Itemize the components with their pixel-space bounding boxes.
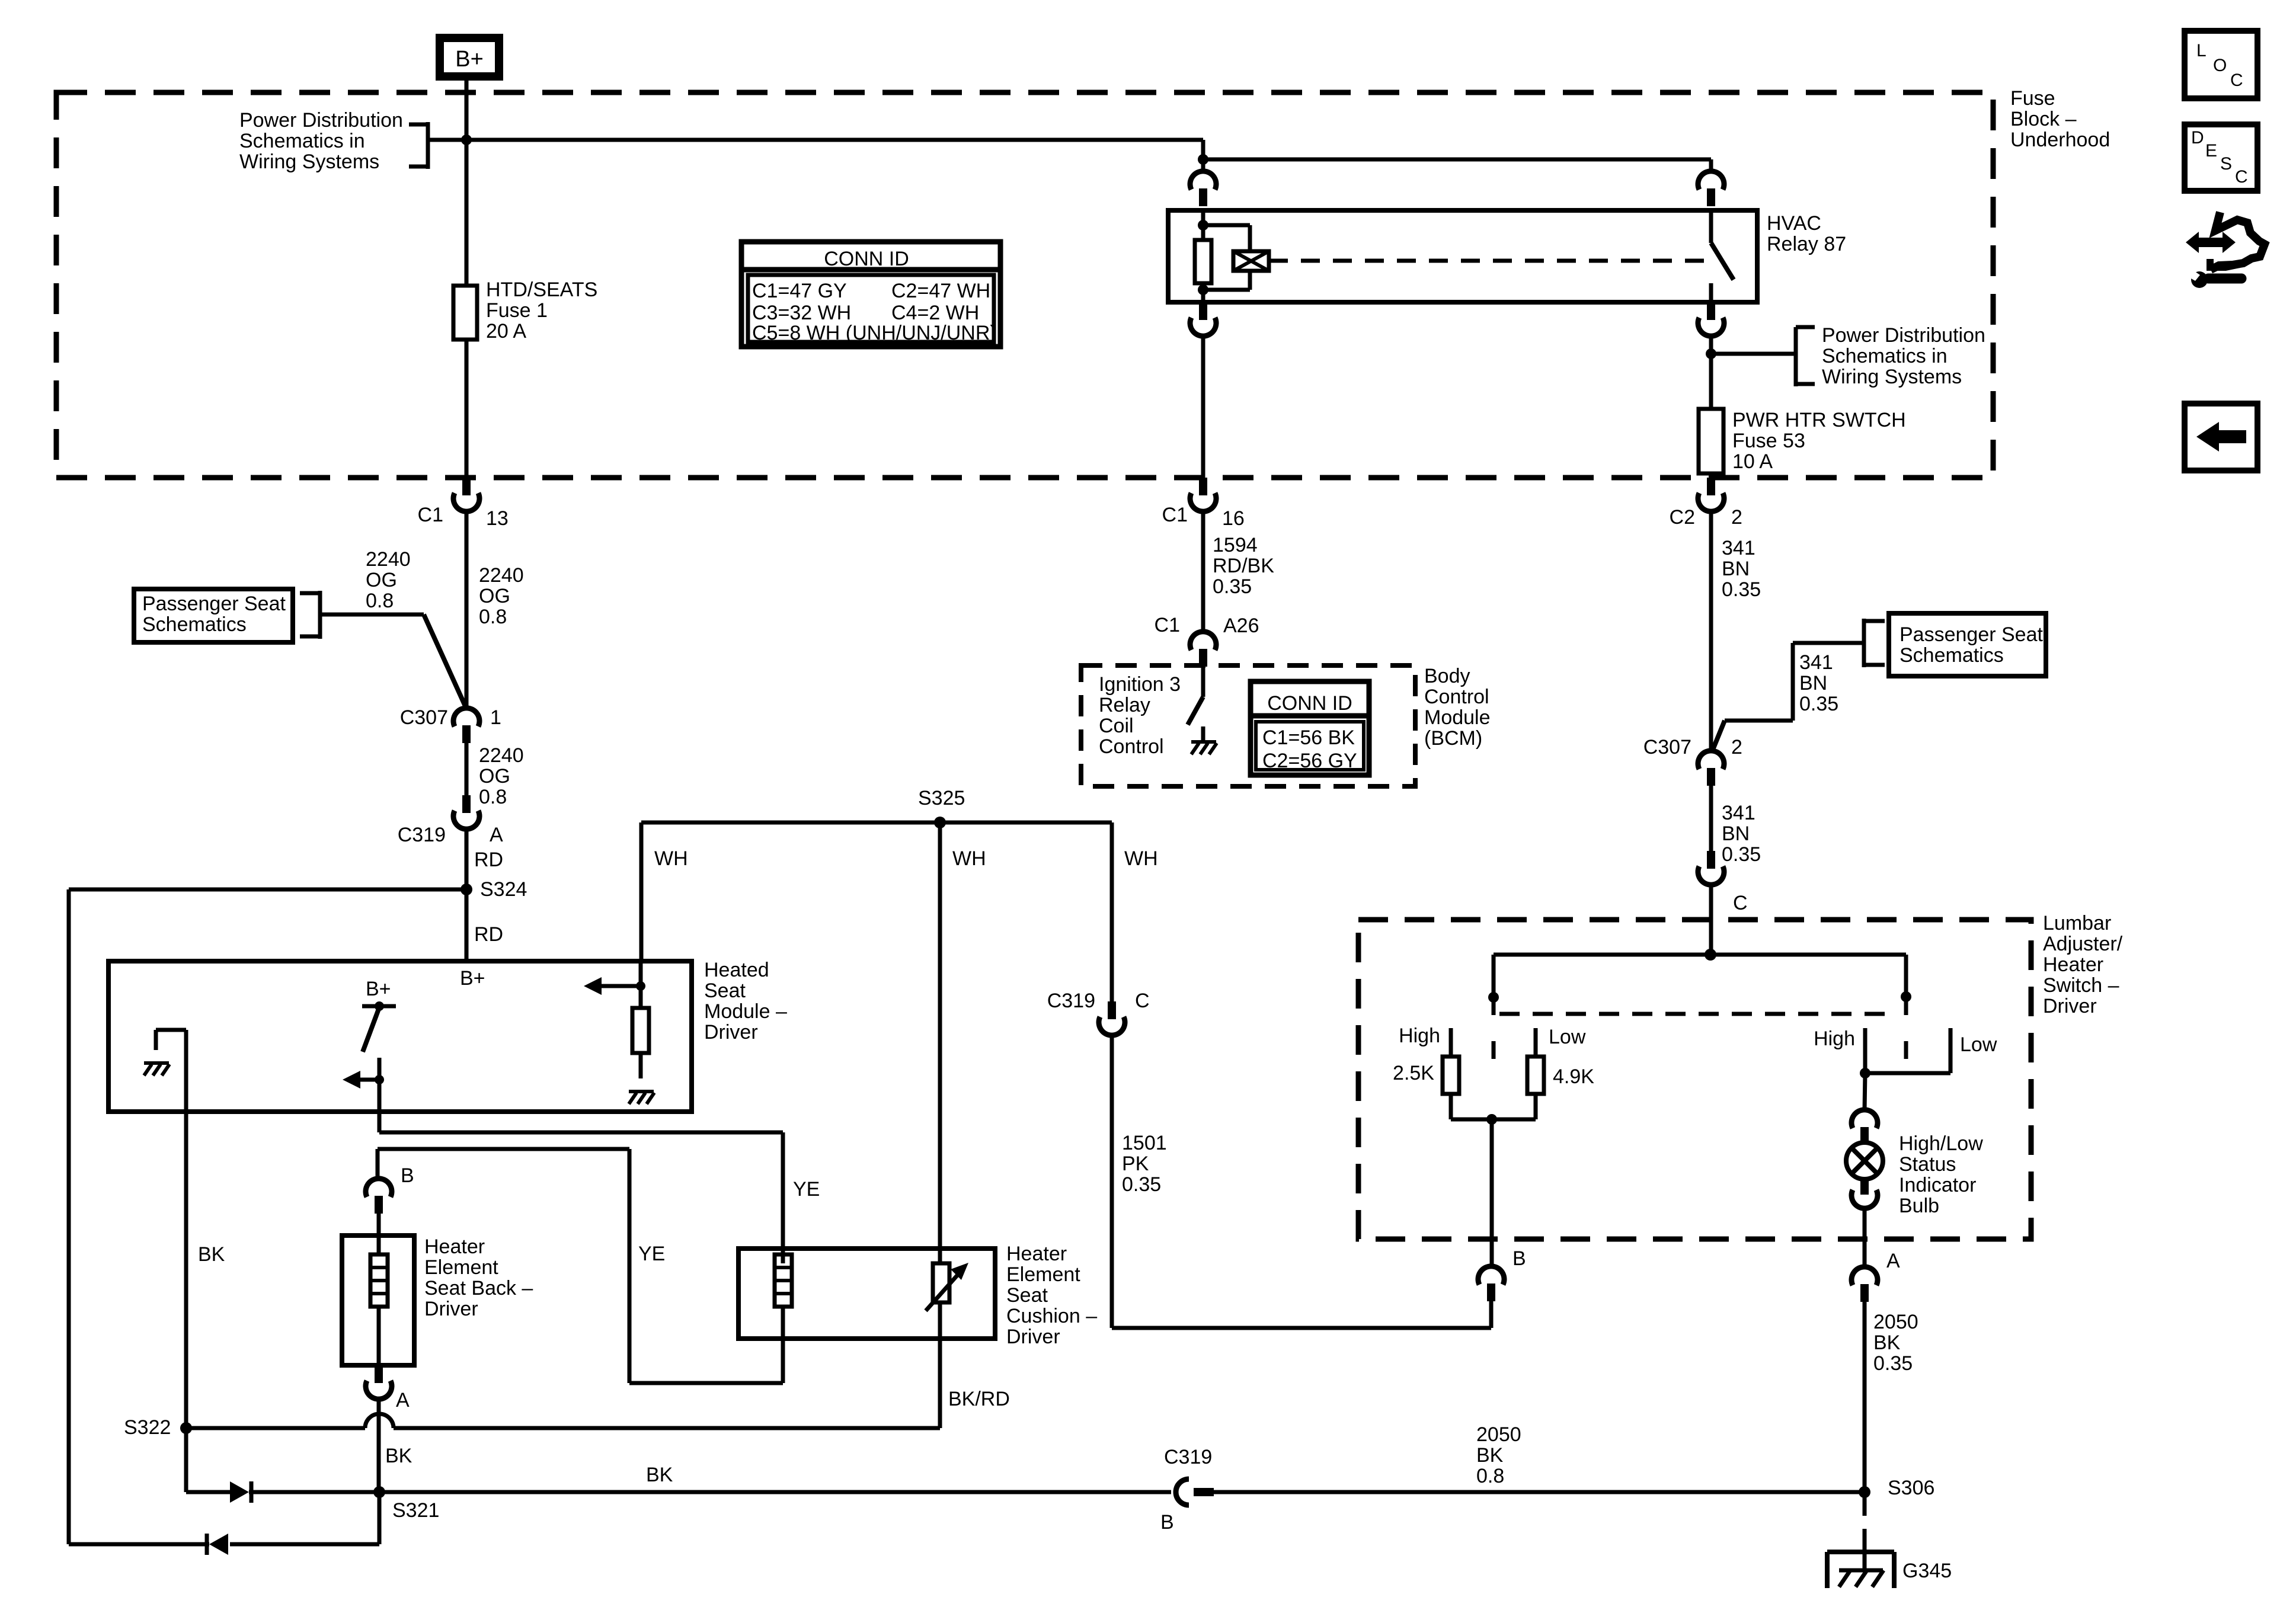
wire BK/RD sensor down [938,1302,942,1428]
icon wiring repair [2186,232,2236,253]
svg-text:0.8: 0.8 [479,606,507,628]
svg-text:S325: S325 [918,787,965,809]
wire WH right to C319 C [1110,822,1114,1001]
svg-text:YE: YE [793,1178,820,1201]
svg-text:BK: BK [646,1464,673,1486]
svg-text:C1=56 BK: C1=56 BK [1262,726,1355,749]
svg-text:C319: C319 [398,824,446,846]
svg-text:RD/BK: RD/BK [1213,555,1274,577]
wire fuse to C1 pin 13 [465,340,469,478]
svg-text:A: A [490,824,503,846]
wire B+ down to junction [465,81,469,140]
svg-text:Adjuster/: Adjuster/ [2043,933,2123,955]
svg-text:PK: PK [1122,1153,1149,1175]
node lumbar feed junction [1705,949,1716,961]
wire 341 BN 0.35 lower [1709,786,1713,851]
svg-text:C1: C1 [1162,504,1188,526]
svg-text:0.35: 0.35 [1213,575,1252,598]
box Passenger Seat Schematics (left) [134,589,293,642]
ground BCM internal [1191,740,1216,744]
svg-text:B+: B+ [455,47,484,72]
module Body Control Module dashed box [1081,665,1415,786]
resistor 4.9K [1527,1057,1544,1094]
wire lumbar feed rail [1494,953,1906,957]
connector C307 pin 1 [453,708,479,726]
svg-text:Schematics: Schematics [1900,644,2004,667]
connector lumbar pin B [1478,1266,1504,1285]
svg-text:HVAC: HVAC [1767,212,1821,235]
svg-text:E: E [2205,141,2217,161]
svg-text:2050: 2050 [1476,1423,1521,1446]
svg-text:O: O [2213,56,2227,75]
svg-text:High: High [1399,1025,1440,1047]
node PWR HTR fuse junction [1706,348,1716,359]
wire 2050 BK 0.35 [1863,1302,1867,1492]
svg-text:2240: 2240 [366,548,411,571]
module Heated Seat Module Driver box [108,961,692,1112]
svg-text:Cushion –: Cushion – [1006,1305,1097,1327]
svg-text:S306: S306 [1888,1477,1934,1499]
ground G345 [1863,1492,1867,1516]
dashed mechanical link lumbar [1499,1012,1891,1016]
wire B+ junction east to HVAC relay [466,138,1203,142]
connector C1 pin 13 [462,478,471,495]
svg-text:B: B [401,1164,414,1187]
icon DESC box [2185,124,2257,191]
wire WH center to cushion sensor [938,822,942,1263]
svg-text:4.9K: 4.9K [1553,1065,1594,1088]
svg-text:C: C [2235,167,2248,187]
svg-text:0.35: 0.35 [1722,578,1761,601]
svg-text:High: High [1814,1028,1855,1050]
svg-text:C: C [1135,990,1150,1012]
svg-text:OG: OG [479,585,510,607]
svg-text:BK: BK [1873,1331,1901,1354]
svg-text:C319: C319 [1164,1446,1212,1468]
svg-text:Schematics in: Schematics in [1822,345,1948,367]
sensor cushion thermistor [933,1263,949,1302]
box Passenger Seat Schematics (right) [1889,613,2046,676]
svg-text:Bulb: Bulb [1899,1195,1939,1217]
svg-text:20 A: 20 A [486,320,526,343]
node S325 [934,817,946,828]
svg-text:Power Distribution: Power Distribution [1822,324,1985,347]
fuse block underhood dashed box [56,92,1993,478]
svg-text:Indicator: Indicator [1899,1174,1976,1196]
svg-text:Passenger Seat: Passenger Seat [1900,623,2043,646]
resistor 2.5K [1443,1057,1459,1094]
svg-text:Driver: Driver [424,1298,478,1320]
svg-text:2: 2 [1731,506,1742,529]
svg-text:Ignition 3: Ignition 3 [1099,673,1181,696]
svg-text:S: S [2220,154,2232,174]
svg-text:Module –: Module – [704,1000,787,1023]
heater element seat back (4-bar) [377,1235,381,1254]
svg-text:C2=47 WH: C2=47 WH [891,280,990,302]
switch lumbar resistor select [1492,955,1496,1015]
node relay feed junction [1198,154,1208,165]
connector C pin (lumbar C) [1707,851,1715,869]
svg-text:C: C [1733,892,1748,914]
svg-text:CONN ID: CONN ID [824,248,909,270]
svg-text:13: 13 [486,507,509,530]
svg-text:HTD/SEATS: HTD/SEATS [486,279,597,301]
svg-text:D: D [2191,128,2204,148]
svg-text:0.8: 0.8 [366,590,394,612]
svg-text:(BCM): (BCM) [1424,727,1482,750]
dashed coil-contact link [1269,259,1711,263]
svg-text:Control: Control [1424,686,1489,708]
connector C307 pin 2 [1698,751,1724,769]
relay switch contact [1709,210,1713,243]
svg-text:C307: C307 [400,706,448,729]
svg-text:2: 2 [1731,736,1742,758]
diode pointing left [209,1534,228,1555]
wire S321 to left diode loop [378,1492,382,1544]
svg-text:C4=2 WH: C4=2 WH [891,302,979,324]
svg-text:C1: C1 [418,504,443,526]
svg-text:1: 1 [490,706,501,729]
wire left BK trunk down [67,889,71,1544]
icon wrench [2208,274,2241,284]
ground module sense ground [629,1090,654,1093]
svg-text:0.8: 0.8 [479,786,507,808]
svg-text:2240: 2240 [479,744,524,767]
svg-text:Body: Body [1424,665,1470,687]
svg-text:0.35: 0.35 [1799,693,1838,715]
svg-text:0.35: 0.35 [1873,1352,1913,1375]
svg-text:Underhood: Underhood [2010,129,2110,151]
svg-text:Element: Element [424,1256,498,1279]
svg-text:Heater: Heater [424,1235,485,1258]
wire S324 west [69,888,466,892]
svg-text:Seat: Seat [704,980,746,1002]
svg-text:10 A: 10 A [1732,450,1773,473]
svg-text:WH: WH [654,847,688,870]
module Lumbar Adjuster Heater Switch Driver dashed box [1358,920,2031,1239]
connector C319 pin B (inline horizontal) [1176,1479,1189,1505]
svg-text:YE: YE [638,1243,665,1265]
svg-text:Driver: Driver [2043,995,2097,1017]
box CONN ID (BCM) [1251,681,1369,775]
svg-text:Element: Element [1006,1263,1080,1286]
svg-text:Schematics in: Schematics in [239,130,365,152]
svg-text:Wiring Systems: Wiring Systems [1822,366,1962,388]
svg-text:2240: 2240 [479,564,524,587]
fuse HTD/SEATS Fuse 1 20 A [453,286,477,340]
svg-text:PWR HTR SWTCH: PWR HTR SWTCH [1732,409,1906,431]
svg-text:Block –: Block – [2010,108,2077,130]
connector C2 pin 2 [1707,478,1715,495]
svg-text:B+: B+ [460,967,485,990]
svg-text:A: A [396,1389,410,1411]
svg-text:1594: 1594 [1213,534,1258,556]
svg-text:0.35: 0.35 [1722,843,1761,866]
svg-text:Heater: Heater [1006,1243,1067,1265]
wire WH horizontal [641,821,1112,825]
svg-text:L: L [2196,41,2207,60]
node S324 [461,884,472,895]
wire junction to HTD/SEATS fuse [465,140,469,286]
svg-text:Fuse: Fuse [2010,87,2055,110]
svg-text:High/Low: High/Low [1899,1132,1983,1155]
svg-text:Driver: Driver [704,1021,758,1044]
node S321 [373,1486,385,1498]
icon LOC box [2185,31,2257,98]
wire 1501 PK 0.35 [1110,1035,1114,1328]
svg-text:G345: G345 [1902,1560,1952,1582]
box CONN ID (fuse block) [741,242,1000,347]
node S-junction at B+ feed [461,135,472,145]
svg-text:B: B [1160,1511,1174,1534]
B+ power symbol [436,34,503,81]
svg-text:Fuse 1: Fuse 1 [486,299,548,322]
svg-text:2.5K: 2.5K [1393,1062,1434,1084]
svg-text:C5=8 WH (UNH/UNJ/UNR): C5=8 WH (UNH/UNJ/UNR) [752,322,997,344]
element Heater Element Seat Back box [342,1235,414,1365]
svg-text:Module: Module [1424,706,1491,729]
svg-text:C1=47 GY: C1=47 GY [752,280,847,302]
connector C1 pin 16 [1199,478,1207,495]
svg-text:Seat: Seat [1006,1284,1048,1307]
svg-text:RD: RD [474,849,503,871]
resistor module sense resistor [593,984,641,988]
svg-text:Wiring Systems: Wiring Systems [239,151,379,173]
svg-text:Driver: Driver [1006,1326,1060,1348]
connector C1 pin A26 [1190,632,1216,650]
svg-text:BK/RD: BK/RD [948,1388,1010,1410]
svg-text:1501: 1501 [1122,1132,1167,1154]
svg-text:Power Distribution: Power Distribution [239,109,403,132]
relay suppression diode box [1203,223,1250,228]
lamp High/Low Status Indicator Bulb [1865,1073,1865,1110]
svg-text:341: 341 [1722,802,1755,824]
fuse PWR HTR SWTCH Fuse 53 10 A [1709,354,1713,409]
svg-text:B+: B+ [366,978,391,1000]
connector C319 pin A [462,795,471,813]
wire RD [465,828,469,961]
svg-text:341: 341 [1799,651,1833,674]
svg-text:C307: C307 [1643,736,1691,758]
svg-text:A26: A26 [1223,614,1259,637]
svg-text:S322: S322 [124,1416,171,1439]
svg-text:OG: OG [479,765,510,788]
svg-text:16: 16 [1222,507,1245,530]
svg-text:0.35: 0.35 [1122,1173,1161,1196]
svg-text:BN: BN [1722,558,1750,580]
relay HVAC Relay 87 box [1168,210,1757,302]
svg-text:S321: S321 [392,1499,439,1522]
connector seat back pin A [375,1365,383,1383]
wire 341 BN 0.35 top [1709,511,1713,751]
element Heater Element Seat Cushion box [738,1249,995,1339]
svg-text:Passenger Seat: Passenger Seat [142,593,286,615]
svg-text:BK: BK [1476,1444,1504,1467]
heater element cushion (4-bar) [775,1254,792,1307]
svg-text:2050: 2050 [1873,1311,1918,1333]
svg-text:Heater: Heater [2043,953,2103,976]
svg-text:Status: Status [1899,1153,1956,1176]
svg-text:BK: BK [198,1243,225,1266]
svg-text:Control: Control [1099,735,1164,758]
svg-text:Heated: Heated [704,959,769,981]
wire WH left into module [639,822,644,961]
ground module internal ground stub [144,1061,169,1065]
svg-text:C319: C319 [1047,990,1095,1012]
svg-text:BN: BN [1722,822,1750,845]
svg-text:341: 341 [1722,537,1755,559]
svg-text:BK: BK [385,1445,412,1467]
connector C319 pin C (center) [1108,1001,1116,1019]
node S306 [1859,1486,1870,1498]
wire 2240 OG 0.8 [465,511,469,709]
connector lumbar pin A [1851,1267,1878,1285]
switch ignition 3 relay coil control [1201,667,1205,697]
svg-text:Schematics: Schematics [142,613,247,636]
svg-text:S324: S324 [480,878,527,901]
svg-text:Switch –: Switch – [2043,974,2119,997]
diode to S321 [230,1481,249,1503]
wire BK main to C319 B [379,1490,1171,1494]
svg-text:Fuse 53: Fuse 53 [1732,430,1805,452]
svg-text:Coil: Coil [1099,715,1134,737]
switch lumbar bulb select [1904,955,1908,1015]
svg-text:RD: RD [474,923,503,946]
connector relay coil pin top [1201,159,1205,172]
svg-text:C2: C2 [1670,506,1695,529]
svg-text:BN: BN [1799,672,1827,694]
wire S322 to BK/RD (hop over A wire) [186,1426,365,1430]
svg-text:0.8: 0.8 [1476,1465,1504,1487]
svg-text:C3=32 WH: C3=32 WH [752,302,851,324]
svg-text:Lumbar: Lumbar [2043,912,2111,934]
relay coil [1201,210,1205,240]
svg-text:C: C [2230,71,2243,90]
svg-text:WH: WH [1124,847,1158,870]
svg-text:C2=56 GY: C2=56 GY [1262,750,1357,772]
svg-text:Low: Low [1960,1033,1997,1056]
wire YE from module to cushion [378,1112,382,1132]
wire S322 diode branch [184,1428,188,1492]
svg-text:Seat Back –: Seat Back – [424,1277,533,1299]
svg-text:C1: C1 [1155,614,1180,636]
connector relay coil pin bottom [1199,302,1207,320]
svg-text:A: A [1886,1250,1900,1272]
connector relay switch pin bottom [1707,302,1715,320]
icon back arrow box [2185,404,2257,470]
svg-text:Relay: Relay [1099,694,1150,716]
svg-text:CONN ID: CONN ID [1267,692,1352,715]
svg-text:WH: WH [952,847,986,870]
svg-text:B: B [1512,1247,1526,1270]
wire junction to relay switch side [1203,158,1711,162]
wire 2240 OG 0.8 to C319 [465,743,469,795]
wire module ground BK down [184,1030,188,1428]
connector seat back pin B [376,1149,380,1179]
wire YE cushion to seat back [781,1307,785,1383]
node S322 [180,1422,192,1434]
svg-text:Low: Low [1549,1026,1586,1048]
connector relay switch pin top [1698,171,1724,190]
svg-text:Relay 87: Relay 87 [1767,233,1846,255]
svg-text:OG: OG [366,569,397,591]
wire passenger tap right [1793,641,1864,645]
wire passenger tap diagonal [320,613,424,617]
wire 1594 RD/BK 0.35 [1201,511,1205,632]
